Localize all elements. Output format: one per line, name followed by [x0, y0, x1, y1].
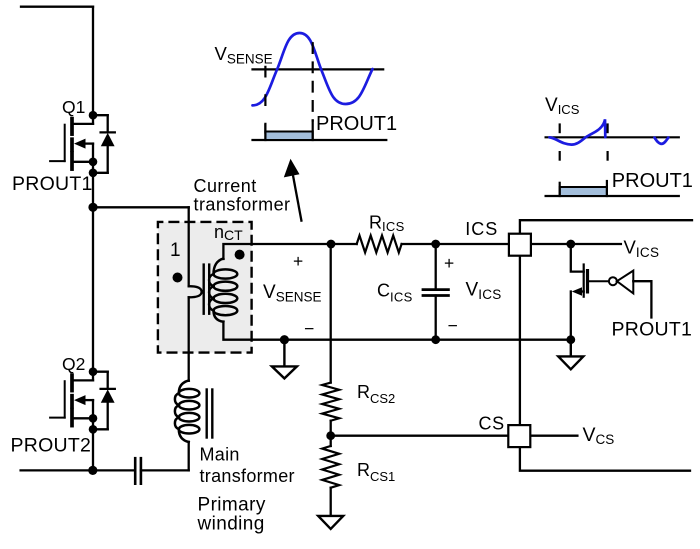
svg-text:PROUT1: PROUT1	[12, 173, 93, 195]
wire top rail	[21, 6, 93, 8]
svg-text:PROUT1: PROUT1	[316, 113, 397, 135]
node half-bridge midpoint	[88, 203, 97, 212]
svg-text:ICS: ICS	[465, 219, 498, 239]
node CT primary phase dot	[173, 273, 183, 283]
svg-text:VICS: VICS	[545, 95, 580, 117]
sine curve	[253, 33, 373, 105]
wire node to CT primary	[93, 206, 189, 208]
node Q2 drain	[89, 367, 98, 376]
ground G1 (V_SENSE minus)	[272, 340, 297, 379]
wire ICS pin to V_ICS	[531, 243, 621, 245]
channel segments	[70, 119, 74, 170]
wire bottom rail left	[21, 469, 136, 471]
ground G3 (discharge FET source)	[558, 340, 583, 370]
svg-text:VSENSE: VSENSE	[263, 282, 321, 305]
svg-text:VCS: VCS	[583, 424, 615, 447]
inductor CT secondary winding	[209, 259, 237, 322]
node FET source ground	[566, 335, 575, 344]
wire CT primary vertical lower	[188, 297, 190, 381]
diode D2 (Q2 body diode)	[93, 372, 115, 430]
wire Q2 source to bottom rail	[92, 429, 94, 470]
wire left vertical to Q1 drain	[92, 7, 94, 124]
resistor R_CS1	[322, 446, 339, 488]
svg-text:RCS2: RCS2	[357, 382, 395, 406]
inductor main transformer primary winding	[175, 381, 200, 443]
dashed marker right	[312, 43, 314, 120]
IC outline top edge	[520, 220, 692, 234]
wire CT primary vertical upper	[188, 207, 190, 286]
wire R_ICS to C_ICS node	[402, 243, 510, 245]
drain stub	[72, 123, 93, 125]
svg-text:PROUT2: PROUT2	[11, 435, 92, 457]
svg-text:−: −	[304, 319, 314, 339]
dashed marker left	[264, 67, 266, 133]
svg-text:VSENSE: VSENSE	[215, 43, 273, 67]
node C_ICS top	[431, 240, 440, 249]
body-source vertical	[92, 144, 94, 173]
node V_ICS	[566, 240, 575, 249]
svg-text:Current: Current	[194, 176, 257, 196]
svg-text:+: +	[444, 253, 454, 273]
node C_ICS bottom	[431, 335, 440, 344]
svg-text:RICS: RICS	[369, 213, 405, 235]
wire CS divider node to CS pin	[331, 435, 509, 437]
transformer T2 main transformer core	[207, 390, 213, 438]
node Q1 source stub	[89, 158, 98, 167]
gate bar	[64, 125, 66, 161]
svg-text:Q2: Q2	[62, 354, 85, 374]
inverter U1	[609, 271, 652, 318]
wire CT secondary bottom lead	[223, 322, 284, 340]
gate lead	[50, 160, 65, 162]
capacitor C_ICS	[435, 244, 437, 289]
pulse rect	[265, 132, 312, 141]
inductor primary single-turn hump	[189, 286, 202, 297]
wire cap to transformer bottom	[141, 469, 189, 471]
node bottom rail	[88, 466, 97, 475]
dashed markers	[560, 125, 608, 160]
svg-text:PROUT1: PROUT1	[612, 318, 693, 340]
node CS divider	[326, 431, 335, 440]
current transformer dashed box	[158, 222, 252, 353]
resistor R_ICS	[357, 236, 402, 253]
curve	[550, 119, 606, 144]
node CT secondary phase dot	[235, 250, 245, 260]
source stub	[72, 161, 93, 163]
node V_SENSE plus	[327, 240, 336, 249]
capacitor Cblock	[135, 458, 141, 484]
wire CS pin to V_CS	[530, 435, 577, 437]
svg-text:transformer: transformer	[194, 194, 291, 214]
IC outline bottom edge	[520, 447, 690, 471]
node Q2 source stub	[89, 414, 98, 423]
transistor Q3 (ICS discharge FET)	[571, 244, 609, 340]
ground G2 (below R_CS1)	[318, 516, 343, 529]
node Q2 source/diode	[89, 425, 98, 434]
node Q1 source/diode	[89, 169, 98, 178]
svg-text:VICS: VICS	[466, 279, 502, 302]
body stub with arrow	[83, 142, 93, 144]
svg-text:transformer: transformer	[200, 466, 295, 486]
wire ground bus (V_SENSE minus)	[284, 339, 571, 341]
pin box CS	[508, 425, 530, 447]
axis	[253, 68, 384, 70]
wire main transformer bottom lead	[188, 442, 190, 471]
waveform V_SENSE inset	[253, 33, 387, 140]
IC outline vertical edge	[519, 256, 521, 425]
wire V_SENSE+ to R_ICS	[331, 243, 357, 245]
transistor Q2	[50, 375, 93, 429]
transistor Q1	[50, 119, 93, 173]
svg-text:−: −	[448, 316, 458, 336]
svg-text:RCS1: RCS1	[357, 460, 395, 484]
pulse baseline	[253, 139, 387, 141]
node Q1 drain	[89, 111, 98, 120]
wire Q1 source to Q2 drain	[92, 173, 94, 381]
svg-text:Primary: Primary	[198, 495, 266, 516]
svg-text:winding: winding	[197, 514, 265, 535]
axis	[546, 136, 679, 138]
svg-text:Main: Main	[200, 445, 240, 465]
transformer T1 core (current transformer)	[204, 265, 210, 314]
diode D1 (Q1 body diode)	[93, 115, 115, 173]
pulse rect	[560, 187, 607, 196]
pin box ICS	[509, 234, 531, 256]
pulse baseline	[546, 195, 679, 197]
svg-text:CICS: CICS	[377, 281, 413, 305]
svg-text:VICS: VICS	[624, 237, 660, 260]
wire CT secondary top lead	[223, 244, 331, 259]
resistor R_CS2 with leads	[330, 244, 332, 383]
svg-text:+: +	[293, 251, 303, 271]
node V_SENSE minus	[280, 335, 289, 344]
svg-text:CS: CS	[479, 414, 505, 434]
svg-text:1: 1	[170, 240, 181, 261]
svg-text:PROUT1: PROUT1	[612, 170, 693, 192]
waveform V_ICS inset	[546, 119, 679, 196]
arrow to waveform	[284, 159, 302, 221]
svg-text:Q1: Q1	[62, 97, 85, 117]
